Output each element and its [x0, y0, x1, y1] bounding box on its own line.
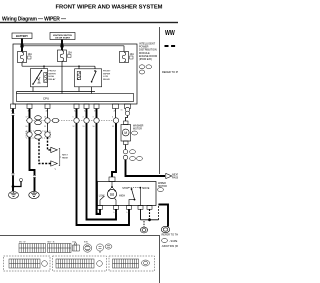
svg-text:15: 15	[121, 110, 123, 112]
svg-text:PAGE: PAGE	[172, 177, 178, 180]
svg-text:10A: 10A	[28, 53, 33, 56]
svg-text:4: 4	[83, 116, 84, 118]
svg-text:59: 59	[44, 126, 46, 128]
svg-text:FRONT: FRONT	[49, 71, 57, 73]
svg-text:15A: 15A	[68, 52, 73, 55]
svg-text:(IPDM E/R): (IPDM E/R)	[139, 58, 152, 61]
svg-text:MOVE: MOVE	[142, 187, 149, 190]
svg-text:3: 3	[93, 116, 94, 118]
svg-text:REFER TO THE: REFER TO THE	[162, 234, 179, 237]
svg-text:M1 : W: M1 : W	[19, 242, 25, 244]
svg-text:10A: 10A	[130, 53, 135, 56]
svg-text:Wiring Diagram — WIPER —: Wiring Diagram — WIPER —	[2, 17, 66, 23]
svg-text:17: 17	[26, 116, 28, 118]
svg-text:IGNITION SWITCH: IGNITION SWITCH	[53, 35, 72, 37]
svg-text:HIGH: HIGH	[119, 194, 125, 197]
svg-text:WIPER: WIPER	[103, 73, 111, 75]
svg-text:*1: *1	[54, 169, 57, 171]
svg-text:FRONT WIPER AND WASHER SYSTEM: FRONT WIPER AND WASHER SYSTEM	[55, 5, 162, 11]
svg-text:WW: WW	[165, 28, 175, 37]
svg-text:28: 28	[114, 111, 117, 113]
svg-text:WIPER: WIPER	[49, 73, 57, 75]
svg-text:51: 51	[83, 126, 85, 128]
svg-text:- SUPE: - SUPE	[169, 240, 178, 243]
svg-text:E38: E38	[84, 242, 88, 244]
svg-text:6: 6	[112, 116, 113, 118]
svg-text:5: 5	[73, 116, 74, 118]
svg-text:RELAY: RELAY	[49, 78, 57, 81]
svg-text:CPU: CPU	[43, 97, 49, 101]
svg-text:48: 48	[46, 111, 49, 113]
svg-text:ON OR START: ON OR START	[55, 37, 71, 40]
svg-text:HIGH: HIGH	[49, 76, 55, 78]
svg-text:REFER TO PG-: REFER TO PG-	[162, 70, 178, 74]
svg-text:M: M	[110, 192, 114, 197]
svg-text:JUNCTION (SM: JUNCTION (SM	[162, 245, 179, 248]
svg-text:50: 50	[93, 126, 95, 128]
svg-text:16: 16	[44, 116, 46, 118]
svg-text:LOW: LOW	[103, 76, 109, 78]
svg-text:NEXT: NEXT	[62, 155, 68, 157]
svg-text:MOTOR: MOTOR	[133, 128, 142, 131]
svg-text:BATTERY: BATTERY	[16, 34, 28, 38]
svg-text:RELAY: RELAY	[103, 78, 111, 81]
svg-text:LOW: LOW	[99, 194, 105, 197]
svg-text:M: M	[124, 131, 127, 135]
svg-text:STOP: STOP	[122, 187, 129, 190]
svg-text:53: 53	[112, 126, 114, 128]
svg-text:FRONT: FRONT	[103, 71, 111, 73]
svg-text:PAGE: PAGE	[62, 156, 68, 159]
svg-text:52: 52	[73, 126, 75, 128]
svg-text:60: 60	[26, 126, 28, 128]
svg-text:L-N: L-N	[98, 212, 102, 214]
svg-text:M57 : B: M57 : B	[48, 242, 56, 244]
